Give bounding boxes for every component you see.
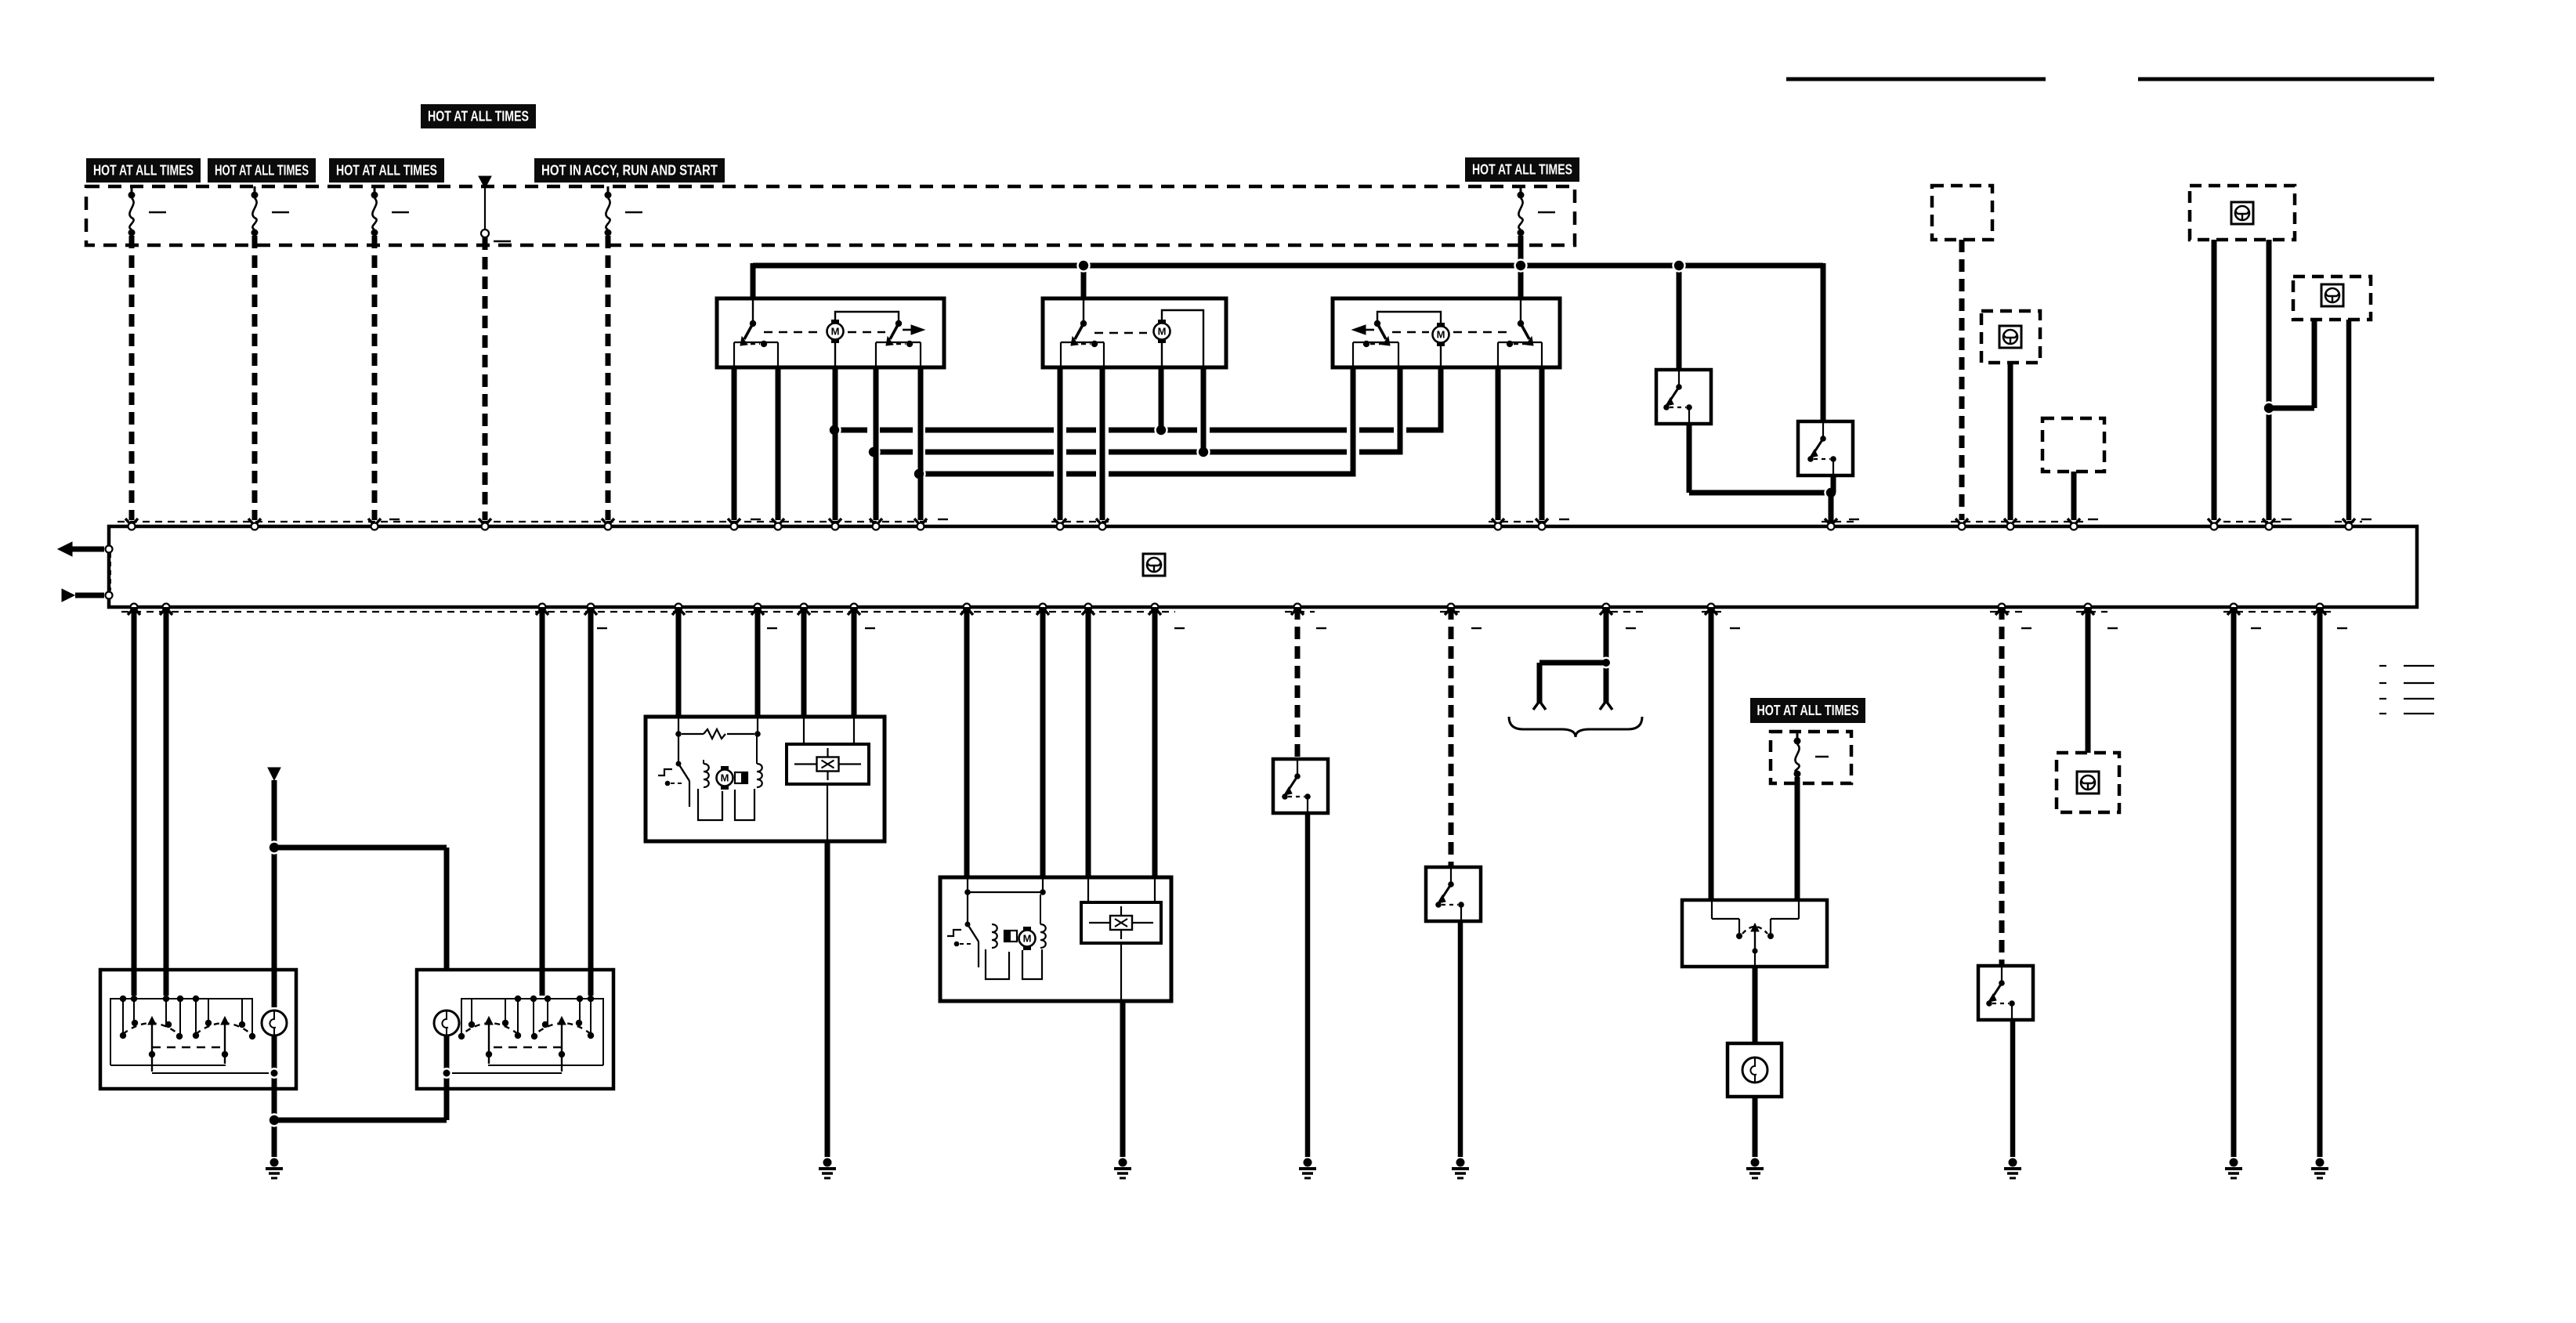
svg-text:M: M [1023, 933, 1032, 945]
svg-text:HOT AT ALL TIMES: HOT AT ALL TIMES [215, 163, 309, 179]
svg-text:M: M [831, 326, 840, 338]
svg-text:HOT AT ALL TIMES: HOT AT ALL TIMES [1757, 703, 1859, 718]
svg-text:HOT AT ALL TIMES: HOT AT ALL TIMES [428, 109, 529, 125]
svg-text:M: M [1437, 329, 1445, 341]
svg-text:M: M [721, 772, 729, 784]
svg-text:HOT AT ALL TIMES: HOT AT ALL TIMES [1472, 162, 1572, 178]
svg-text:M: M [1158, 326, 1167, 338]
svg-text:HOT AT ALL TIMES: HOT AT ALL TIMES [93, 163, 194, 179]
svg-text:HOT AT ALL TIMES: HOT AT ALL TIMES [336, 163, 437, 179]
svg-text:HOT IN ACCY, RUN AND START: HOT IN ACCY, RUN AND START [541, 163, 718, 179]
